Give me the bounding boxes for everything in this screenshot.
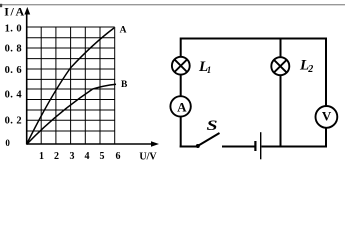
svg-text:1. 0: 1. 0 [5,23,22,34]
wire top horizontal [181,38,326,40]
wire bottom middle segment [222,146,255,148]
svg-text:0: 0 [5,138,10,148]
svg-text:I/A: I/A [4,5,25,19]
switch S blade [199,133,220,146]
wire bottom left segment [180,146,197,148]
svg-text:U/V: U/V [139,151,157,162]
svg-text:6: 6 [116,151,121,162]
battery negative plate (short) [254,141,256,151]
grid horizontal lines [27,27,115,131]
svg-text:0. 2: 0. 2 [5,115,22,126]
wire middle branch upper [280,38,282,58]
svg-text:3: 3 [70,151,75,162]
voltmeter V [316,106,338,128]
svg-text:0. 4: 0. 4 [5,89,23,100]
wire bottom right segment [262,146,328,148]
svg-text:V: V [322,108,332,123]
lamp L1 [172,57,190,75]
wire middle branch lower [280,75,282,147]
wire left branch upper [180,38,182,58]
label L1 [198,59,211,75]
y-axis [24,7,30,144]
wire between L1 and ammeter [180,75,182,97]
svg-text:1: 1 [39,151,44,162]
svg-text:4: 4 [85,151,90,162]
lamp L2 [271,57,289,75]
svg-text:S: S [206,116,217,133]
wire right branch lower [325,128,327,148]
grid vertical lines [41,27,115,144]
svg-text:A: A [120,25,127,35]
svg-text:A: A [177,100,187,115]
svg-text:B: B [121,80,128,90]
x-axis [27,141,160,147]
top border rule [0,4,345,5]
curve B [27,84,117,144]
svg-text:1: 1 [207,65,212,75]
svg-text:0. 8: 0. 8 [5,43,22,54]
switch S pivot [196,144,200,148]
svg-text:0. 6: 0. 6 [5,65,22,76]
battery positive plate (long) [260,132,262,159]
svg-text:5: 5 [100,151,105,162]
curve A [27,28,115,145]
label L2 [299,58,313,75]
svg-text:2: 2 [307,64,313,75]
svg-text:2: 2 [54,151,59,162]
wire below ammeter [180,117,182,148]
ammeter A [170,96,190,116]
wire right branch upper [325,38,327,107]
